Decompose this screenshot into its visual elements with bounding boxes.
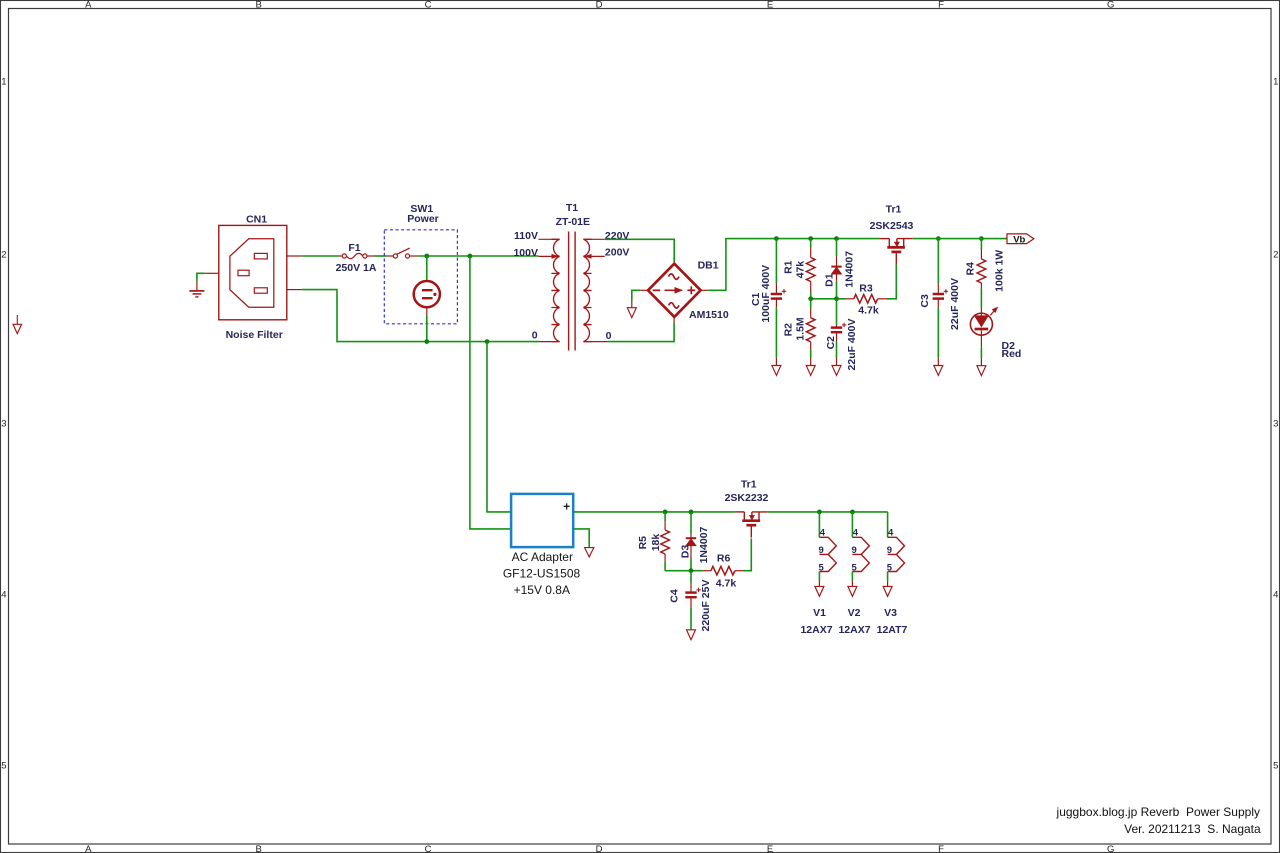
svg-text:1.5M: 1.5M bbox=[794, 317, 806, 341]
svg-text:9: 9 bbox=[852, 545, 857, 556]
connector CN1 plug face bbox=[230, 239, 274, 307]
switch SW1 dashed enclosure bbox=[384, 230, 457, 324]
svg-text:100uF 400V: 100uF 400V bbox=[760, 265, 772, 323]
svg-text:4.7k: 4.7k bbox=[716, 578, 737, 590]
wire heater rail corner to V3 bbox=[887, 512, 889, 537]
junction at drop wire top bbox=[468, 254, 473, 259]
ground at bridge minus bbox=[627, 301, 636, 318]
pin 0 secondary lead bbox=[583, 341, 607, 343]
junction at drop wire 2 bbox=[485, 339, 490, 344]
svg-text:220uF 25V: 220uF 25V bbox=[700, 580, 712, 632]
ground at V3 bbox=[883, 581, 892, 597]
wire low node bbox=[665, 570, 703, 572]
connector CN1 pin slot bottom bbox=[254, 288, 267, 293]
capacitor C2 bbox=[831, 299, 847, 366]
bridge DB1 pin left bbox=[640, 289, 648, 291]
wire lamp top lead bbox=[426, 256, 428, 279]
ground at C2 bbox=[832, 366, 841, 376]
svg-text:V2: V2 bbox=[848, 607, 861, 619]
ac adapter module box bbox=[511, 494, 573, 547]
junction node2 at D1/C2 bbox=[834, 296, 839, 301]
svg-text:GF12-US1508: GF12-US1508 bbox=[503, 566, 581, 580]
svg-text:2: 2 bbox=[1, 249, 6, 260]
wire heater V3 bottom lead bbox=[887, 572, 889, 581]
svg-text:C: C bbox=[425, 844, 432, 853]
capacitor C4 bbox=[685, 571, 701, 630]
svg-text:22uF 400V: 22uF 400V bbox=[949, 278, 961, 330]
svg-text:12AX7: 12AX7 bbox=[800, 624, 832, 636]
junction heater rail at V2 bbox=[850, 510, 855, 515]
svg-text:D: D bbox=[596, 0, 603, 11]
junction DC rail at C3 bbox=[936, 236, 941, 241]
svg-text:3: 3 bbox=[1, 418, 6, 429]
connector CN1 outline bbox=[219, 225, 287, 319]
ground at C1 bbox=[772, 366, 781, 376]
led D2 bbox=[970, 308, 997, 348]
wire adapter minus to ground bbox=[573, 529, 589, 547]
wire bridge plus to DC rail bbox=[708, 239, 879, 291]
svg-text:250V 1A: 250V 1A bbox=[336, 262, 377, 274]
junction DC rail at D1 bbox=[834, 236, 839, 241]
junction heater rail at V1 bbox=[817, 510, 822, 515]
svg-text:47k: 47k bbox=[794, 261, 806, 279]
ground at C4 bbox=[687, 630, 696, 640]
svg-text:C3: C3 bbox=[919, 294, 931, 308]
svg-text:Noise Filter: Noise Filter bbox=[226, 329, 283, 341]
svg-text:E: E bbox=[767, 844, 773, 853]
svg-text:Tr1: Tr1 bbox=[741, 479, 757, 491]
pin 0 primary lead bbox=[539, 341, 560, 343]
svg-text:200V: 200V bbox=[605, 247, 630, 259]
svg-text:R3: R3 bbox=[859, 283, 873, 295]
svg-text:4: 4 bbox=[888, 527, 894, 538]
svg-text:CN1: CN1 bbox=[246, 214, 267, 226]
wire heater V1 top lead bbox=[818, 512, 820, 537]
resistor R2 bbox=[806, 299, 815, 366]
transistor Tr1 2SK2232 bbox=[735, 511, 745, 513]
junction at lamp bottom bbox=[424, 339, 429, 344]
ground at C3 bbox=[934, 366, 943, 376]
svg-text:juggbox.blog.jp Reverb Power: juggbox.blog.jp Reverb Power Supply bbox=[1056, 805, 1260, 819]
svg-text:R4: R4 bbox=[965, 262, 977, 276]
svg-text:3: 3 bbox=[1273, 418, 1278, 429]
frame zone letters top bbox=[85, 0, 1114, 11]
svg-text:4: 4 bbox=[1, 589, 6, 600]
connector CN1 pin lead earth bbox=[205, 272, 219, 274]
resistor R6 bbox=[703, 566, 743, 575]
svg-text:4: 4 bbox=[1273, 589, 1278, 600]
pin 110V stub bbox=[539, 238, 560, 240]
svg-text:Ver. 20211213 S. Nagata: Ver. 20211213 S. Nagata bbox=[1124, 822, 1261, 836]
wire heater V2 bottom lead bbox=[851, 572, 853, 581]
diode D1 bbox=[831, 239, 841, 299]
wire lamp bottom lead bbox=[426, 315, 428, 341]
wire drop 2 to AC adapter bbox=[487, 342, 511, 512]
svg-text:Red: Red bbox=[1002, 348, 1022, 360]
svg-text:2: 2 bbox=[1273, 249, 1278, 260]
bridge rectifier DB1 body bbox=[648, 264, 701, 317]
svg-text:100V: 100V bbox=[513, 247, 538, 259]
frame zone letters bottom bbox=[85, 844, 1114, 853]
pin 200V stub bbox=[583, 255, 604, 259]
wire divider node bbox=[811, 298, 846, 300]
wire F1 to SW1 bbox=[375, 255, 387, 257]
net label Vb bbox=[1007, 234, 1034, 246]
resistor R5 bbox=[661, 512, 670, 571]
svg-text:G: G bbox=[1107, 0, 1114, 11]
connector CN1 pin lead neutral-out bbox=[287, 289, 302, 291]
svg-text:B: B bbox=[256, 0, 262, 11]
svg-text:5: 5 bbox=[1273, 760, 1278, 771]
wire R3 to gate bbox=[887, 264, 896, 299]
wire heater V1 bottom lead bbox=[818, 572, 820, 581]
svg-text:C: C bbox=[425, 0, 432, 11]
tube heater V3 filament bbox=[888, 537, 905, 571]
bridge DB1 ac tilde bottom bbox=[669, 303, 679, 308]
pin 100V tap lead bbox=[538, 255, 559, 259]
svg-text:Vb: Vb bbox=[1013, 234, 1025, 245]
wire R6 to Tr1 gate bbox=[743, 539, 751, 571]
tube heater V2 filament bbox=[852, 537, 869, 571]
svg-text:A: A bbox=[85, 844, 92, 853]
bridge DB1 ac tilde top bbox=[669, 274, 679, 279]
svg-text:22uF 400V: 22uF 400V bbox=[846, 319, 858, 371]
tube heater V1 filament bbox=[819, 537, 836, 571]
junction at lamp top bbox=[424, 254, 429, 259]
svg-text:R1: R1 bbox=[783, 260, 795, 274]
svg-text:D1: D1 bbox=[823, 273, 835, 287]
ground at V2 bbox=[848, 581, 857, 597]
capacitor C3 bbox=[933, 239, 949, 366]
fuse F1 bbox=[339, 253, 375, 258]
capacitor C1 bbox=[771, 239, 787, 366]
wire adapter plus to Tr1 drain bbox=[573, 511, 735, 513]
svg-text:18k: 18k bbox=[650, 534, 662, 552]
svg-text:F1: F1 bbox=[348, 242, 360, 254]
svg-text:1: 1 bbox=[1, 77, 6, 88]
wire earth to ground bbox=[197, 273, 205, 282]
svg-text:A: A bbox=[85, 0, 92, 11]
svg-text:E: E bbox=[767, 0, 773, 11]
svg-text:R5: R5 bbox=[637, 536, 649, 550]
wire bridge minus to ground bbox=[632, 290, 641, 300]
svg-text:G: G bbox=[1107, 844, 1114, 853]
wire Tr1 source to heaters bbox=[768, 511, 888, 513]
neon lamp in SW1 bbox=[414, 279, 440, 315]
svg-text:9: 9 bbox=[887, 545, 892, 556]
junction node2 at R1/R2 bbox=[808, 296, 813, 301]
svg-text:ZT-01E: ZT-01E bbox=[556, 216, 590, 228]
svg-text:110V: 110V bbox=[514, 230, 538, 242]
connector CN1 pin slot middle bbox=[238, 270, 249, 276]
svg-text:2SK2543: 2SK2543 bbox=[870, 220, 914, 232]
svg-text:AC Adapter: AC Adapter bbox=[512, 550, 573, 564]
svg-text:+: + bbox=[563, 500, 570, 514]
svg-text:12AT7: 12AT7 bbox=[877, 624, 908, 636]
bridge DB1 minus sign bbox=[653, 289, 661, 291]
ground at V1 bbox=[815, 581, 824, 597]
junction low rail at D3 bbox=[689, 510, 694, 515]
transistor Tr1 2SK2543 bbox=[880, 238, 890, 240]
wire drop 1 to AC adapter bbox=[470, 256, 511, 529]
svg-text:V1: V1 bbox=[813, 607, 826, 619]
wire CN1 to F1 bbox=[302, 255, 339, 257]
bridge DB1 pin bottom bbox=[673, 317, 675, 323]
svg-text:Power: Power bbox=[407, 213, 439, 225]
svg-text:F: F bbox=[938, 844, 944, 853]
svg-text:1N4007: 1N4007 bbox=[698, 526, 710, 563]
connector CN1 pin slot top bbox=[254, 253, 267, 259]
junction DC rail at C1 bbox=[774, 236, 779, 241]
wire heater V2 top lead bbox=[851, 512, 853, 537]
ground at adapter bbox=[585, 548, 594, 557]
wire 220V to bridge bbox=[605, 239, 675, 262]
frame zone numbers right bbox=[1273, 77, 1278, 772]
svg-text:2SK2232: 2SK2232 bbox=[725, 492, 769, 504]
earth ground symbol lead bbox=[196, 282, 198, 291]
svg-text:DB1: DB1 bbox=[698, 259, 719, 271]
svg-text:5: 5 bbox=[1, 760, 6, 771]
transformer T1 secondary winding bbox=[583, 239, 591, 341]
svg-text:D3: D3 bbox=[680, 545, 692, 559]
transformer T1 core bbox=[569, 232, 576, 351]
junction DC rail at R4 bbox=[979, 236, 984, 241]
junction DC rail at R1 bbox=[808, 236, 813, 241]
svg-text:C4: C4 bbox=[669, 589, 681, 603]
switch SW1 contacts bbox=[387, 248, 419, 258]
ground at D2 bbox=[977, 358, 986, 375]
resistor R4 bbox=[977, 239, 986, 308]
svg-text:12AX7: 12AX7 bbox=[838, 624, 870, 636]
svg-text:4.7k: 4.7k bbox=[858, 304, 879, 316]
svg-text:0: 0 bbox=[606, 330, 612, 342]
junction low node at C4 bbox=[689, 568, 694, 573]
svg-text:C2: C2 bbox=[825, 336, 837, 350]
ground at R2 bbox=[806, 366, 815, 376]
bridge DB1 pin right bbox=[701, 289, 709, 291]
svg-text:4: 4 bbox=[820, 527, 826, 538]
svg-text:D: D bbox=[596, 844, 603, 853]
svg-text:Tr1: Tr1 bbox=[886, 204, 902, 216]
bridge DB1 pin top bbox=[673, 262, 675, 264]
wire below D2 bbox=[980, 348, 982, 359]
svg-text:9: 9 bbox=[819, 545, 824, 556]
svg-text:V3: V3 bbox=[884, 607, 897, 619]
svg-text:1: 1 bbox=[1273, 77, 1278, 88]
resistor R1 bbox=[806, 239, 815, 299]
svg-text:F: F bbox=[938, 0, 944, 11]
earth ground symbol bars bbox=[189, 291, 204, 297]
svg-text:T1: T1 bbox=[566, 202, 578, 214]
wire 0 secondary to bridge bbox=[608, 323, 675, 342]
connector CN1 pin lead line-out bbox=[287, 255, 302, 257]
wire SW1 to junctions bbox=[418, 255, 538, 257]
resistor R3 bbox=[846, 295, 887, 304]
svg-text:100k 1W: 100k 1W bbox=[993, 250, 1005, 292]
frame zone numbers left bbox=[1, 77, 6, 772]
svg-text:+15V 0.8A: +15V 0.8A bbox=[514, 583, 570, 597]
pin 220V lead bbox=[583, 238, 604, 240]
junction low rail at R5 bbox=[663, 510, 668, 515]
bridge DB1 plus sign bbox=[687, 286, 695, 294]
svg-text:AM1510: AM1510 bbox=[689, 309, 729, 321]
wire CN1 neutral to bottom rail bbox=[302, 290, 539, 342]
svg-text:B: B bbox=[256, 844, 262, 853]
bridge DB1 flow arrow bbox=[665, 288, 682, 293]
svg-text:1N4007: 1N4007 bbox=[844, 251, 856, 288]
svg-text:R2: R2 bbox=[783, 323, 795, 337]
floating ground symbol (left margin) bbox=[13, 315, 22, 334]
transformer T1 primary winding bbox=[551, 239, 559, 341]
svg-text:0: 0 bbox=[532, 330, 538, 342]
svg-text:4: 4 bbox=[853, 527, 859, 538]
wire Tr1 source to Vb rail bbox=[913, 238, 1007, 240]
svg-text:R6: R6 bbox=[717, 553, 731, 565]
diode D3 bbox=[686, 512, 696, 571]
